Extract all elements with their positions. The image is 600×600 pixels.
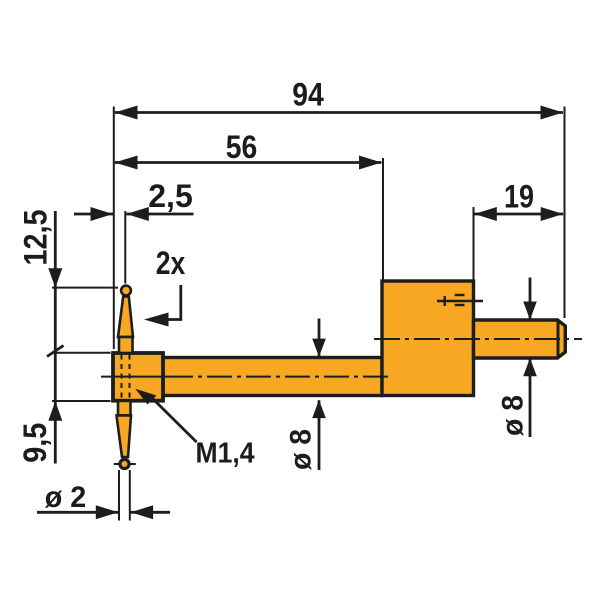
dimension 12,5 / 9,5 line [17, 210, 64, 464]
svg-text:2,5: 2,5 [148, 178, 193, 214]
extension line stylus axis [124, 211, 126, 284]
dimension o8 stub [497, 278, 537, 438]
svg-text:M1,4: M1,4 [196, 438, 255, 470]
svg-text:12,5: 12,5 [18, 210, 54, 266]
upper cone of stylus [118, 297, 133, 338]
shaft body [163, 358, 382, 396]
svg-text:ø 8: ø 8 [497, 395, 530, 436]
ball equator tick right [129, 463, 136, 465]
dimension o8 shaft [285, 319, 326, 471]
svg-text:56: 56 [226, 129, 258, 165]
leader 2x [144, 285, 181, 327]
extension line ball top [52, 287, 118, 289]
extension line block right [473, 207, 475, 280]
hidden thread line left [121, 355, 123, 400]
extension line flange bottom [52, 400, 111, 402]
stub chamfer edge [557, 320, 560, 358]
dimension o2 [37, 481, 170, 519]
upper ball tip [121, 286, 131, 296]
dimension 19 [474, 179, 563, 222]
upper cylinder of stylus [119, 337, 133, 353]
extension line right end [564, 107, 566, 319]
lower cylinder of stylus [118, 401, 131, 416]
lower ball tip [120, 459, 129, 468]
extension line ball left [118, 470, 120, 521]
svg-text:9,5: 9,5 [17, 423, 53, 463]
stylus flange block [113, 353, 163, 401]
ball equator tick left [114, 463, 120, 465]
adjustment mark on block [437, 295, 483, 306]
extension line ball right [129, 470, 131, 521]
extension line flange top [52, 352, 111, 354]
svg-text:19: 19 [504, 179, 534, 215]
svg-text:94: 94 [292, 77, 324, 113]
lower cone of stylus [117, 416, 132, 458]
mounting block [382, 281, 474, 396]
svg-text:ø 2: ø 2 [45, 481, 87, 514]
leader M1,4 [135, 389, 196, 442]
hidden thread line right [129, 355, 131, 400]
shaft centerline [101, 376, 168, 378]
stub centerline [374, 338, 582, 340]
svg-text:2x: 2x [156, 245, 186, 281]
dimension 2,5 [74, 178, 194, 221]
dimension 56 [115, 129, 382, 170]
extension line left face [113, 107, 115, 350]
svg-text:ø 8: ø 8 [285, 429, 318, 470]
right stub shaft [474, 320, 566, 358]
extension line block left [382, 158, 384, 280]
dimension 94 [115, 77, 563, 120]
